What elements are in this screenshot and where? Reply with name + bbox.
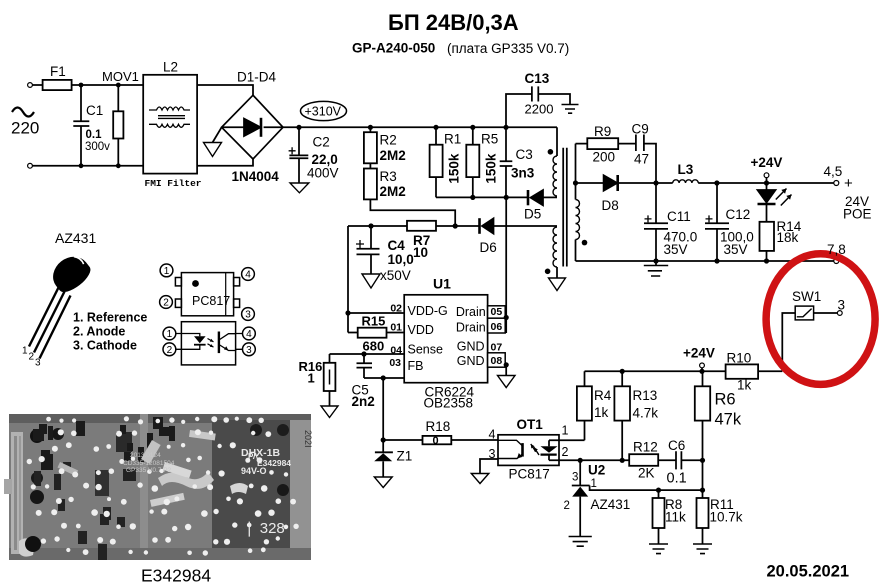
svg-text:4,5: 4,5 [824,164,843,179]
svg-text:3n3: 3n3 [511,166,535,181]
svg-text:1k: 1k [594,405,609,420]
svg-text:0.1: 0.1 [86,129,103,141]
svg-text:C13: C13 [525,71,550,86]
svg-text:680: 680 [363,339,385,354]
svg-text:3. Cathode: 3. Cathode [73,339,137,353]
svg-text:300v: 300v [85,141,110,153]
svg-text:1: 1 [562,424,569,438]
svg-text:220: 220 [11,119,39,138]
svg-text:POE: POE [843,207,872,222]
svg-text:GND: GND [457,340,485,354]
svg-text:GP-A240-050: GP-A240-050 [352,41,435,56]
svg-text:OT1: OT1 [517,417,544,432]
svg-text:VDD-G: VDD-G [408,304,448,318]
svg-text:3: 3 [838,298,846,313]
svg-text:C4: C4 [388,238,406,253]
svg-text:C9: C9 [632,122,649,137]
svg-text:3: 3 [489,447,496,461]
svg-text:R1: R1 [444,132,461,147]
svg-text:FMI Filter: FMI Filter [145,178,202,189]
svg-text:1k: 1k [737,378,752,393]
svg-text:FB: FB [408,359,424,373]
svg-text:1: 1 [591,478,597,490]
svg-text:4: 4 [245,270,251,281]
svg-text:3: 3 [35,358,41,369]
svg-text:35V: 35V [724,242,748,257]
svg-text:R18: R18 [426,419,451,434]
svg-text:150k: 150k [447,153,462,184]
svg-text:94V-O: 94V-O [241,466,267,476]
svg-text:05: 05 [491,306,503,318]
svg-text:GP335 V0.7 P2: GP335 V0.7 P2 [126,467,172,474]
svg-text:AZ431: AZ431 [55,230,96,246]
svg-text:C6: C6 [668,438,685,453]
svg-text:2: 2 [29,352,35,363]
svg-text:R9: R9 [594,124,611,139]
svg-text:2M2: 2M2 [380,148,406,163]
svg-text:1. Reference: 1. Reference [73,311,147,325]
svg-text:D5: D5 [524,207,541,222]
svg-text:400V: 400V [307,166,339,181]
svg-text:AZ431: AZ431 [591,497,631,512]
svg-text:1: 1 [164,266,170,277]
svg-text:4.7k: 4.7k [633,406,659,421]
svg-text:C11: C11 [667,209,691,224]
svg-text:(плата GP335 V0.7): (плата GP335 V0.7) [447,41,569,56]
svg-text:OB2358: OB2358 [424,396,474,411]
svg-text:Sense: Sense [408,343,443,357]
svg-text:35V: 35V [664,242,688,257]
svg-text:03: 03 [389,357,401,369]
svg-text:1: 1 [167,329,173,340]
svg-text:F1: F1 [50,64,66,79]
svg-text:MOV1: MOV1 [102,69,139,84]
svg-text:3: 3 [246,345,252,356]
svg-text:ΡΛ: ΡΛ [248,452,259,461]
svg-text:SW1: SW1 [792,289,821,304]
svg-text:2: 2 [562,445,569,459]
svg-text:L3: L3 [678,162,694,177]
svg-text:L2: L2 [163,60,178,75]
svg-text:150k: 150k [484,153,499,184]
svg-text:0.1: 0.1 [667,471,687,487]
svg-text:Z1: Z1 [397,449,413,464]
svg-text:+24V: +24V [683,346,715,361]
svg-text:202Ⅰ: 202Ⅰ [303,430,313,448]
svg-text:3: 3 [572,472,578,484]
svg-text:2: 2 [564,500,570,512]
svg-text:1: 1 [22,346,28,357]
svg-text:E342984: E342984 [141,566,211,586]
svg-text:PC817: PC817 [192,294,230,308]
svg-text:4: 4 [489,428,496,442]
svg-text:U2: U2 [588,463,605,478]
svg-text:2: 2 [167,345,173,356]
svg-text:R6: R6 [715,391,736,409]
svg-text:R5: R5 [481,132,498,147]
svg-text:2013.0124: 2013.0124 [130,452,161,459]
svg-text:C3: C3 [516,147,533,162]
svg-text:02: 02 [390,303,402,315]
svg-text:07: 07 [491,342,503,354]
svg-text:04: 04 [390,345,402,357]
svg-text:08: 08 [491,355,503,367]
svg-text:VDD: VDD [408,323,434,337]
svg-text:+: + [844,175,853,192]
svg-text:1N4004: 1N4004 [232,169,280,184]
svg-text:Drain: Drain [456,305,486,319]
svg-text:4: 4 [246,329,252,340]
svg-text:CD335-12081504: CD335-12081504 [123,460,175,467]
svg-text:2K: 2K [638,466,655,481]
svg-text:10,0: 10,0 [388,252,414,267]
svg-text:18k: 18k [777,230,799,245]
svg-text:10: 10 [413,245,428,260]
svg-text:20.05.2021: 20.05.2021 [767,563,850,581]
svg-text:3: 3 [245,310,251,321]
svg-text:2200: 2200 [525,102,554,117]
svg-text:0: 0 [433,435,439,447]
svg-text:+24V: +24V [751,155,783,170]
svg-text:47: 47 [634,152,649,167]
svg-text:D6: D6 [480,240,497,255]
svg-text:R12: R12 [633,440,658,455]
svg-text:D8: D8 [602,198,619,213]
svg-text:❘ 328: ❘ 328 [243,520,285,537]
svg-text:C1: C1 [86,103,103,118]
svg-text:06: 06 [491,321,503,333]
svg-text:R15: R15 [362,314,386,329]
svg-text:10.7k: 10.7k [710,510,743,525]
svg-text:БП 24В/0,3А: БП 24В/0,3А [388,10,519,35]
svg-text:R13: R13 [633,388,658,403]
svg-text:7,8: 7,8 [827,242,846,257]
svg-text:U1: U1 [433,276,451,292]
svg-text:47k: 47k [715,411,742,429]
svg-text:C12: C12 [726,207,751,222]
svg-text:C2: C2 [313,135,330,150]
svg-text:R2: R2 [380,133,397,148]
svg-text:2M2: 2M2 [380,184,406,199]
svg-text:D1-D4: D1-D4 [237,70,277,85]
svg-text:2. Anode: 2. Anode [73,325,125,339]
svg-text:GND: GND [457,354,485,368]
svg-text:2n2: 2n2 [352,394,375,409]
svg-text:R4: R4 [594,388,612,403]
svg-text:1: 1 [308,371,315,386]
svg-text:2: 2 [163,298,169,309]
svg-text:x50V: x50V [380,268,411,283]
svg-text:R10: R10 [727,351,752,366]
svg-text:PC817: PC817 [509,467,550,482]
svg-text:R3: R3 [380,169,397,184]
svg-text:+310V: +310V [305,105,342,119]
svg-text:01: 01 [390,322,402,334]
svg-text:Drain: Drain [456,321,486,335]
svg-text:200: 200 [593,150,616,165]
svg-text:11k: 11k [665,510,686,525]
